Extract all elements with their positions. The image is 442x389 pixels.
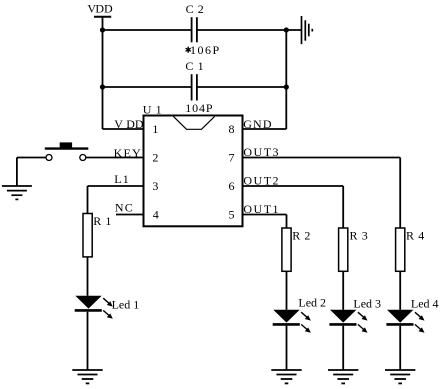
LED Led1 — [75, 296, 140, 319]
wire pin 2 to switch — [86, 157, 144, 159]
wire pin 5 to R2 column — [243, 214, 287, 216]
svg-text:L1: L1 — [114, 172, 130, 186]
svg-text:Led 2: Led 2 — [298, 295, 326, 309]
svg-text:4: 4 — [153, 208, 159, 222]
svg-text:104P: 104P — [185, 101, 213, 115]
svg-text:VDD: VDD — [87, 2, 113, 16]
svg-text:7: 7 — [229, 151, 235, 165]
svg-text:R 4: R 4 — [406, 229, 425, 243]
wire Led1 to ground — [87, 312, 89, 370]
svg-text:Led 4: Led 4 — [411, 296, 439, 310]
wire pin 1 — [103, 128, 144, 130]
wire pin 7 to R4 column — [243, 157, 401, 159]
junction dot GND/C1 — [284, 84, 289, 89]
ground (Led3) — [328, 370, 358, 383]
wire GND rail vertical — [285, 30, 287, 129]
wire switch to ground — [17, 157, 46, 159]
svg-text:5: 5 — [229, 208, 235, 222]
IC U1 body — [143, 102, 243, 226]
wire VDD rail vertical — [102, 17, 104, 129]
ground (top right, sideways earth) — [302, 16, 313, 44]
resistor R1 — [83, 214, 112, 257]
ground (switch) — [2, 186, 32, 199]
ground (Led1) — [72, 370, 102, 383]
wire pin 8 to GND rail — [243, 128, 287, 130]
wire Led4 to ground — [399, 326, 401, 370]
svg-text:C 1: C 1 — [185, 59, 204, 73]
wire L1 drop to R1 — [87, 186, 89, 214]
wire Led3 to ground — [342, 326, 344, 370]
wire mid rail right (C1 to GND rail) — [197, 86, 286, 88]
wire pin 4 stub — [116, 214, 144, 216]
svg-text:U 1: U 1 — [143, 102, 162, 116]
wire R3 to Led3 — [342, 271, 344, 310]
wire top rail left (VDD to C2) — [103, 29, 192, 31]
junction dot GND/C2 — [284, 27, 289, 32]
resistor R3 — [339, 228, 369, 271]
wire OUT2 drop — [342, 186, 344, 228]
wire pin 3 — [88, 185, 144, 187]
svg-text:R 2: R 2 — [292, 229, 311, 243]
value label *106P — [186, 43, 221, 57]
ground (Led2) — [271, 370, 301, 383]
capacitor C1 — [185, 59, 204, 101]
wire top rail right (C2 to ground) — [197, 29, 301, 31]
LED Led2 — [273, 295, 326, 332]
svg-text:106P: 106P — [190, 43, 221, 57]
svg-text:8: 8 — [229, 122, 235, 136]
resistor R4 — [396, 228, 425, 271]
wire OUT1 drop — [286, 215, 288, 229]
junction dot VDD/C1 — [100, 84, 105, 89]
wire R4 to Led4 — [399, 271, 401, 310]
wire Led2 to ground — [286, 326, 288, 370]
svg-text:2: 2 — [152, 151, 158, 165]
svg-text:Led 1: Led 1 — [112, 297, 140, 311]
svg-text:NC: NC — [115, 200, 134, 214]
wire R1 to Led1 — [87, 257, 89, 296]
ground (Led4) — [385, 370, 415, 383]
wire R2 to Led2 — [286, 271, 288, 310]
wire mid rail left (VDD to C1) — [103, 86, 192, 88]
svg-text:3: 3 — [152, 179, 158, 193]
svg-text:Led 3: Led 3 — [353, 296, 381, 310]
capacitor C2 — [186, 2, 205, 42]
power symbol VDD — [87, 2, 113, 17]
svg-text:C 2: C 2 — [186, 2, 205, 16]
svg-text:6: 6 — [229, 179, 235, 193]
resistor R2 — [282, 228, 311, 271]
switch S1 (pushbutton KEY) — [45, 142, 89, 160]
junction dot VDD/C2 — [100, 27, 105, 32]
svg-text:R 1: R 1 — [93, 214, 112, 228]
wire OUT3 drop — [399, 158, 401, 229]
wire pin 6 to R3 column — [243, 185, 344, 187]
LED Led4 — [386, 296, 438, 333]
wire switch ground drop — [16, 158, 18, 187]
svg-text:R 3: R 3 — [350, 229, 369, 243]
LED Led3 — [329, 296, 381, 333]
svg-text:1: 1 — [152, 122, 158, 136]
